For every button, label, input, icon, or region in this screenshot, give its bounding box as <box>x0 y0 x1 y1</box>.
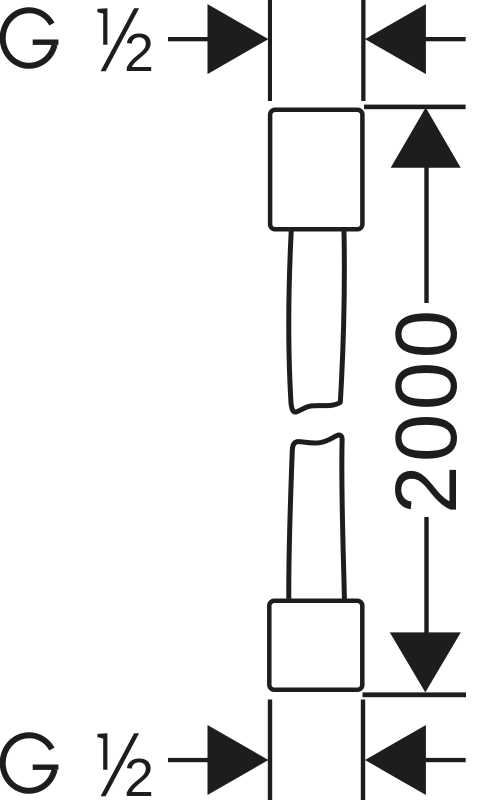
label 1/2 numerator (bottom) <box>97 733 107 770</box>
dimension line upper segment (2000) <box>424 167 428 303</box>
dimension arrowhead up (2000) <box>391 108 461 168</box>
dimension arrow left (top), head <box>208 4 269 74</box>
pipe line bottom-left <box>268 700 272 800</box>
dimension arrow left (top), shaft <box>168 37 213 41</box>
label G (bottom) <box>3 735 55 791</box>
dimension line lower segment (2000) <box>424 517 428 633</box>
extension line top (to dimension) <box>364 105 466 110</box>
pipe line top-right <box>361 0 365 101</box>
dimension arrowhead down (2000) <box>390 632 461 692</box>
label G (top) <box>3 10 55 66</box>
hose lower segment (with wavy break start) <box>289 435 345 598</box>
dimension arrow left (bottom), shaft <box>168 758 213 762</box>
label 1/2 slash (top) <box>101 8 140 71</box>
label 1/2 numerator (top) <box>97 8 107 45</box>
dimension arrow right (bottom), head <box>365 725 426 795</box>
label 1/2 slash (bottom) <box>101 733 140 796</box>
extension line bottom (to dimension) <box>363 692 467 697</box>
svg-text:2000: 2000 <box>378 306 475 514</box>
svg-text:2: 2 <box>124 748 154 800</box>
pipe line top-left <box>268 0 272 101</box>
pipe line bottom-right <box>361 700 365 800</box>
dimension arrow right (top), head <box>365 4 426 74</box>
dimension arrow right (top), shaft <box>424 37 466 41</box>
hose upper segment (with wavy break end) <box>289 232 345 412</box>
svg-text:2: 2 <box>124 23 154 83</box>
dimension arrow left (bottom), head <box>208 725 269 795</box>
dimension arrow right (bottom), shaft <box>424 758 466 762</box>
connector nut bottom (rounded rect) <box>269 601 362 690</box>
connector nut top (rounded rect) <box>270 110 362 230</box>
